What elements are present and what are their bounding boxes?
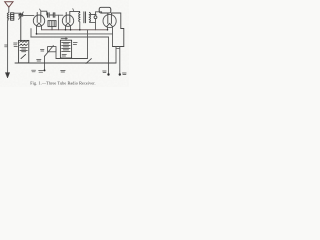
wire filament bus B [37, 33, 113, 35]
wire secondary to tuning cap [14, 12, 21, 14]
wire bus C [31, 36, 109, 38]
wire to tube 2 grid [55, 14, 63, 16]
terminal dot A [107, 73, 109, 75]
coil L2 secondary [11, 13, 14, 20]
tube V2 [62, 12, 73, 26]
switch S1 [86, 59, 91, 64]
label Am [103, 71, 107, 73]
junction dot [44, 69, 46, 71]
wire T1 secondary top lead [90, 14, 96, 16]
antenna [5, 2, 13, 13]
junction dot [70, 29, 72, 31]
junction dot [79, 29, 81, 31]
wire down to phones [112, 34, 114, 47]
wire T1 primary return [79, 22, 81, 30]
label A+ [37, 59, 41, 61]
label gnd [5, 45, 8, 47]
label A- [32, 70, 44, 72]
wire plate V2 to transformer [70, 11, 80, 22]
wire B line [56, 58, 88, 60]
tube V1 [33, 12, 44, 26]
battery BB box [60, 40, 71, 58]
wire stub [30, 29, 32, 37]
wire V3 filament drops [108, 27, 113, 34]
wire junction drop [58, 15, 60, 30]
wire [49, 14, 53, 16]
resistor R1 grid leak box [48, 21, 56, 30]
label B bat [62, 43, 77, 56]
transformer T2 box [99, 7, 111, 13]
wire V2 filament drops [66, 26, 71, 30]
transformer T1 core [84, 12, 86, 23]
wire V1 filament drops [37, 26, 42, 34]
junction dot [95, 14, 97, 16]
ground [6, 73, 10, 78]
wire plate V3 up and right [111, 13, 123, 47]
label Bp [122, 73, 126, 75]
wire phone lead left [115, 47, 117, 64]
coil L1 primary [7, 13, 8, 20]
wire up to box [96, 12, 102, 15]
label 1 [40, 9, 41, 11]
wire plate V1 up-right [41, 11, 47, 22]
rheostat R2 [44, 46, 56, 71]
wire T1 secondary bottom lead [90, 21, 96, 23]
capacitor C2 coupling [48, 13, 50, 17]
wire bottom bus [15, 62, 116, 64]
wire BB top [65, 37, 67, 40]
wire filament bus A [42, 29, 108, 31]
label phones [117, 48, 120, 50]
label above BB [61, 37, 67, 39]
battery BA box [19, 40, 29, 62]
wire terminal A [108, 37, 110, 74]
capacitor C1 variable tuning [19, 12, 24, 40]
transformer T1 primary [79, 12, 80, 22]
terminal dot B [119, 73, 121, 75]
label A bat [14, 43, 18, 47]
label B- [61, 70, 66, 72]
svg-text:Fig. 1.—Three Tube Radio Recei: Fig. 1.—Three Tube Radio Receiver. [30, 80, 95, 85]
wire antenna ground lead [7, 20, 9, 74]
junction dot [36, 33, 38, 35]
wire grid line to tube 1 [23, 14, 34, 16]
transformer T1 secondary [89, 12, 90, 22]
wire drop from bus A [87, 30, 89, 59]
grid jack circle [94, 16, 97, 19]
junction dot [65, 29, 67, 31]
tube V3 [103, 13, 116, 27]
capacitor C3 grid condenser [53, 13, 55, 17]
label 2 [72, 9, 75, 11]
junction dot [107, 29, 109, 31]
phones bar [113, 46, 124, 48]
label rheo [40, 49, 44, 51]
wire jack down [95, 19, 97, 30]
wire phone lead right [119, 47, 121, 75]
